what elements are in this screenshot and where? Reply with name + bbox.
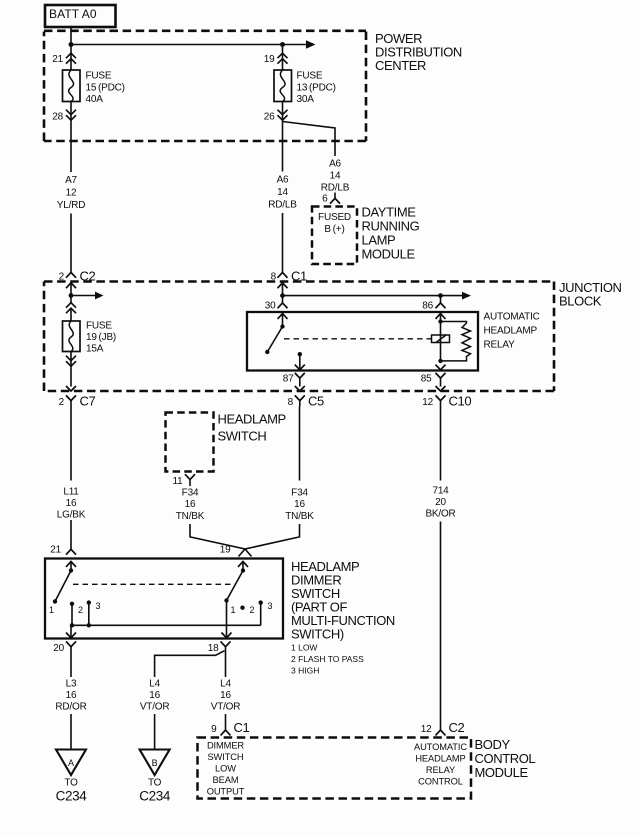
relay coil vertical wire xyxy=(438,319,442,363)
svg-text:15A: 15A xyxy=(86,344,104,355)
label BODY CONTROL MODULE xyxy=(475,737,536,780)
svg-text:CENTER: CENTER xyxy=(375,58,426,73)
dimmer left contact 2 xyxy=(70,602,83,626)
svg-text:B (+): B (+) xyxy=(324,224,344,235)
svg-text:OUTPUT: OUTPUT xyxy=(207,787,245,797)
relay switch arm xyxy=(265,327,282,355)
pin 21 connector xyxy=(52,45,76,71)
svg-text:19 (JB): 19 (JB) xyxy=(86,332,116,343)
svg-text:FUSE: FUSE xyxy=(297,71,323,82)
svg-text:BEAM: BEAM xyxy=(213,775,239,785)
svg-text:RELAY: RELAY xyxy=(484,340,516,351)
wire L11 16 LG/BK xyxy=(57,487,86,521)
fuse 13 (PDC) 30A xyxy=(274,70,336,105)
svg-text:14: 14 xyxy=(277,187,288,198)
svg-text:RD/LB: RD/LB xyxy=(321,183,350,194)
svg-text:14: 14 xyxy=(330,171,341,182)
dimmer right pivot xyxy=(241,568,245,572)
svg-text:HEADLAMP: HEADLAMP xyxy=(218,412,286,427)
svg-text:C1: C1 xyxy=(234,720,250,735)
wire F34 16 TN/BK (right) xyxy=(285,488,314,523)
svg-text:AUTOMATIC: AUTOMATIC xyxy=(484,312,540,323)
svg-text:BATT A0: BATT A0 xyxy=(49,7,97,21)
svg-text:1: 1 xyxy=(231,605,236,615)
fuse 19 (JB) lower connector xyxy=(66,352,76,387)
connector C1 pin 9 xyxy=(211,714,249,735)
wire branch from pin 18 xyxy=(155,647,226,677)
wire 714 20 BK/OR xyxy=(425,486,455,520)
svg-text:12: 12 xyxy=(66,188,77,199)
svg-text:FUSED: FUSED xyxy=(318,212,351,223)
svg-text:L3: L3 xyxy=(66,679,77,690)
connector C2 pin 12 xyxy=(421,720,465,735)
svg-text:LAMP: LAMP xyxy=(362,233,396,248)
pin 26 connector xyxy=(264,102,288,172)
wire A6 14 RD/LB (main) xyxy=(268,175,297,211)
svg-text:CONTROL: CONTROL xyxy=(418,777,463,787)
svg-text:DIMMER: DIMMER xyxy=(207,741,244,751)
svg-text:C2: C2 xyxy=(80,269,96,284)
dimmer pin 20 drop xyxy=(66,625,76,638)
svg-text:86: 86 xyxy=(422,301,433,312)
svg-text:YL/RD: YL/RD xyxy=(57,200,85,211)
power distribution center box (dashed) xyxy=(44,31,366,141)
svg-text:BODY: BODY xyxy=(475,737,511,752)
svg-text:19: 19 xyxy=(220,545,231,556)
node at fuse 15 tap xyxy=(69,42,74,47)
svg-text:8: 8 xyxy=(288,397,294,408)
svg-text:28: 28 xyxy=(52,112,63,123)
svg-text:3 HIGH: 3 HIGH xyxy=(291,666,319,676)
wire F34 16 TN/BK (left) xyxy=(176,488,205,523)
relay pin 87 connector xyxy=(283,365,305,387)
relay pin 85 connector xyxy=(421,365,446,387)
svg-text:L11: L11 xyxy=(63,487,79,498)
connector C10 pin 12 xyxy=(422,386,471,409)
wire from BATT A0 down xyxy=(70,27,72,45)
node coil tap xyxy=(438,293,443,298)
svg-text:A7: A7 xyxy=(65,175,77,186)
node relay feed xyxy=(280,293,285,298)
svg-text:16: 16 xyxy=(66,690,77,701)
dimmer right contact 3 xyxy=(259,600,273,625)
battery feed BATT A0 xyxy=(45,5,116,27)
svg-text:RD/OR: RD/OR xyxy=(55,702,86,713)
wire to connector A xyxy=(70,714,72,749)
label HEADLAMP DIMMER SWITCH xyxy=(291,559,395,676)
label POWER DISTRIBUTION CENTER xyxy=(375,31,462,73)
svg-text:VT/OR: VT/OR xyxy=(140,702,170,713)
svg-text:RELAY: RELAY xyxy=(426,765,455,775)
node at fuse 13 tap xyxy=(280,42,285,47)
relay coil resistor xyxy=(441,322,471,361)
dimmer pin 20 connector xyxy=(53,641,76,654)
svg-text:13 (PDC): 13 (PDC) xyxy=(297,83,336,94)
svg-text:TN/BK: TN/BK xyxy=(285,511,314,522)
svg-text:AUTOMATIC: AUTOMATIC xyxy=(414,742,467,752)
svg-text:F34: F34 xyxy=(291,488,308,499)
svg-text:C7: C7 xyxy=(80,394,96,409)
daytime running lamp module box (dashed) xyxy=(312,207,357,265)
relay pin 30 connector xyxy=(265,301,288,327)
svg-text:6: 6 xyxy=(322,194,328,205)
fuse 15 (PDC) 40A xyxy=(63,70,125,105)
svg-text:2: 2 xyxy=(59,397,65,408)
label TO C234 (left) xyxy=(56,778,88,804)
svg-text:A6: A6 xyxy=(277,175,289,186)
svg-text:2: 2 xyxy=(250,605,255,615)
headlamp dimmer switch box xyxy=(45,559,283,639)
svg-text:8: 8 xyxy=(271,272,277,283)
relay switch pivot xyxy=(280,324,284,328)
wire C5 down xyxy=(299,407,301,481)
svg-text:30A: 30A xyxy=(297,94,315,105)
svg-text:3: 3 xyxy=(268,601,273,611)
label FUSED B(+) xyxy=(318,212,351,235)
label JUNCTION BLOCK xyxy=(559,280,622,309)
svg-text:85: 85 xyxy=(421,374,432,385)
wire L4 16 VT/OR (right branch) xyxy=(211,679,241,713)
splice arrow A xyxy=(56,750,86,776)
svg-text:TO: TO xyxy=(148,778,162,789)
svg-text:C2: C2 xyxy=(449,720,465,735)
relay coil symbol xyxy=(432,335,450,343)
relay actuating link (dashed) xyxy=(284,338,432,340)
svg-text:C10: C10 xyxy=(449,394,472,409)
wire from pin 11 to dimmer pin 19 xyxy=(190,524,252,557)
fuse 19 (JB) upper connector xyxy=(66,303,76,314)
splice arrow B xyxy=(140,750,170,776)
dimmer pin 21 connector xyxy=(50,520,76,556)
svg-text:SWITCH: SWITCH xyxy=(207,752,243,762)
label DAYTIME RUNNING LAMP MODULE xyxy=(362,205,420,262)
svg-text:BK/OR: BK/OR xyxy=(425,509,455,520)
svg-text:TO: TO xyxy=(64,778,78,789)
svg-text:21: 21 xyxy=(52,54,63,65)
connector C5 pin 8 xyxy=(288,386,324,409)
svg-text:21: 21 xyxy=(50,545,61,556)
dimmer pin 19 inner barb xyxy=(238,562,248,571)
wire L4 16 VT/OR (left branch) xyxy=(140,679,170,713)
automatic headlamp relay box xyxy=(247,312,478,371)
fuse 19 (JB) 15A xyxy=(63,308,117,355)
svg-text:SWITCH): SWITCH) xyxy=(291,627,344,642)
connector C7 pin 2 xyxy=(59,386,96,409)
body control module box (dashed) xyxy=(198,738,472,799)
svg-text:RD/LB: RD/LB xyxy=(268,200,297,211)
svg-text:26: 26 xyxy=(264,112,275,123)
svg-text:16: 16 xyxy=(149,690,160,701)
label DIMMER SWITCH LOW BEAM OUTPUT xyxy=(207,741,245,797)
dimmer output bus xyxy=(70,623,261,627)
svg-text:LOW: LOW xyxy=(215,764,236,774)
relay contact to pin 87 xyxy=(298,352,302,370)
svg-text:40A: 40A xyxy=(86,94,104,105)
svg-text:20: 20 xyxy=(435,497,446,508)
svg-text:1: 1 xyxy=(49,605,54,615)
svg-text:A: A xyxy=(68,758,74,768)
svg-text:19: 19 xyxy=(264,54,275,65)
wire A7 12 YL/RD xyxy=(57,175,85,211)
label AUTOMATIC HEADLAMP RELAY xyxy=(484,312,540,351)
svg-text:SWITCH: SWITCH xyxy=(218,429,267,444)
dimmer pin 18 drop xyxy=(222,601,232,638)
svg-text:CONTROL: CONTROL xyxy=(475,751,536,766)
svg-text:TN/BK: TN/BK xyxy=(176,511,205,522)
dimmer left pivot xyxy=(69,568,73,572)
svg-text:15 (PDC): 15 (PDC) xyxy=(86,83,125,94)
label TO C234 (middle) xyxy=(139,778,171,804)
wire L3 from pin 20 xyxy=(70,653,72,678)
svg-text:MODULE: MODULE xyxy=(362,247,416,262)
svg-text:20: 20 xyxy=(53,643,64,654)
svg-text:87: 87 xyxy=(283,374,294,385)
dimmer right contact 2 xyxy=(240,605,254,615)
dimmer left arm xyxy=(49,571,71,616)
svg-text:C1: C1 xyxy=(291,269,307,284)
svg-text:L4: L4 xyxy=(220,679,231,690)
headlamp switch box (dashed) xyxy=(166,413,214,472)
wire 714 to BCM xyxy=(440,522,442,731)
svg-text:F34: F34 xyxy=(182,488,199,499)
svg-text:2 FLASH TO PASS: 2 FLASH TO PASS xyxy=(291,654,364,664)
wire from C5 to dimmer pin 19 xyxy=(239,524,300,557)
svg-text:12: 12 xyxy=(422,397,433,408)
wire A6 14 RD/LB (branch) xyxy=(321,159,350,194)
wire to relay coil with arrow xyxy=(283,292,472,300)
svg-text:2: 2 xyxy=(78,605,83,615)
headlamp switch pin 11 connector xyxy=(173,474,195,487)
dimmer left contact 3 xyxy=(87,600,101,625)
svg-text:A6: A6 xyxy=(329,159,341,170)
svg-text:1 LOW: 1 LOW xyxy=(291,643,317,653)
svg-text:11: 11 xyxy=(173,476,184,487)
svg-text:16: 16 xyxy=(220,690,231,701)
dimmer pin 21 inner barb xyxy=(66,562,76,571)
dimmer mechanical link (dashed) xyxy=(73,583,236,585)
svg-text:9: 9 xyxy=(211,724,217,735)
svg-text:B: B xyxy=(152,758,158,768)
dimmer right arm xyxy=(224,571,243,616)
svg-text:FUSE: FUSE xyxy=(86,321,112,332)
svg-text:LG/BK: LG/BK xyxy=(57,510,86,521)
svg-text:16: 16 xyxy=(185,499,196,510)
svg-text:RUNNING: RUNNING xyxy=(362,219,420,234)
svg-text:HEADLAMP: HEADLAMP xyxy=(415,754,465,764)
connector C2 pin 2 xyxy=(59,268,96,303)
svg-text:MODULE: MODULE xyxy=(475,765,529,780)
svg-text:DAYTIME: DAYTIME xyxy=(362,205,417,220)
svg-text:C5: C5 xyxy=(308,394,324,409)
svg-text:16: 16 xyxy=(66,498,77,509)
pin 19 connector xyxy=(264,45,288,71)
svg-text:BLOCK: BLOCK xyxy=(559,294,602,309)
arrow right from fuse 19 tap xyxy=(71,292,104,300)
node fuse 19 tap xyxy=(69,293,74,298)
svg-text:3: 3 xyxy=(96,601,101,611)
svg-text:HEADLAMP: HEADLAMP xyxy=(484,326,538,337)
svg-text:C234: C234 xyxy=(56,789,88,804)
label AUTOMATIC HEADLAMP RELAY CONTROL xyxy=(414,742,467,787)
dimmer pin 18 connector xyxy=(208,641,231,654)
wire C10 down xyxy=(440,407,442,481)
wire to connector B xyxy=(154,714,156,749)
bus wire with arrow xyxy=(71,40,316,48)
svg-text:18: 18 xyxy=(208,643,219,654)
connector C1 pin 8 xyxy=(271,267,307,302)
svg-text:714: 714 xyxy=(432,486,449,497)
pin 6 connector xyxy=(322,193,340,205)
wire L3 16 RD/OR xyxy=(55,679,86,713)
svg-text:30: 30 xyxy=(265,301,276,312)
pin 28 connector xyxy=(52,102,76,173)
svg-text:C234: C234 xyxy=(139,789,171,804)
svg-text:FUSE: FUSE xyxy=(86,71,112,82)
svg-text:VT/OR: VT/OR xyxy=(211,702,241,713)
label HEADLAMP SWITCH xyxy=(218,412,286,444)
svg-text:16: 16 xyxy=(294,499,305,510)
wire C7 down xyxy=(70,407,72,481)
junction block box (dashed) xyxy=(44,282,554,392)
branch wire to DRL module xyxy=(283,122,336,157)
relay pin 86 connector xyxy=(422,296,445,322)
svg-text:L4: L4 xyxy=(149,679,160,690)
svg-text:12: 12 xyxy=(421,724,432,735)
svg-text:2: 2 xyxy=(59,272,65,283)
